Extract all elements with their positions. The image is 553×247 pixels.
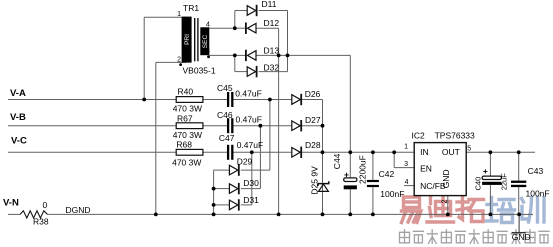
svg-text:D13: D13 [264, 46, 280, 56]
svg-text:3: 3 [206, 48, 210, 55]
svg-text:TPS76333: TPS76333 [435, 131, 475, 141]
svg-text:R40: R40 [178, 87, 194, 97]
svg-text:+: + [483, 166, 488, 176]
svg-text:DGND: DGND [66, 205, 91, 215]
wire IC2 GND pin 2 [447, 196, 449, 215]
svg-text:0.47uF: 0.47uF [236, 115, 262, 125]
wire V-A after R40 [203, 99, 227, 101]
svg-text:100nF: 100nF [380, 189, 404, 199]
transformer TR1 phase dot secondary [207, 55, 210, 58]
wire EN tie horizontal [394, 167, 414, 169]
wire C43 branch lower [518, 187, 520, 214]
node zener vertical on main rail [321, 150, 325, 154]
wire C42 branch lower [372, 187, 374, 214]
svg-text:D28: D28 [305, 140, 321, 150]
diode D26 [292, 94, 301, 105]
svg-text:2: 2 [177, 57, 181, 64]
svg-text:OUT: OUT [442, 147, 460, 157]
wire zener branch [322, 100, 324, 215]
svg-text:V-N: V-N [3, 198, 19, 209]
svg-text:R67: R67 [177, 113, 193, 123]
svg-text:D25 9V: D25 9V [310, 166, 320, 195]
wire vertical D31 to V-C [251, 152, 253, 205]
svg-text:1: 1 [177, 11, 181, 18]
wire D31 cathode [241, 204, 252, 206]
wire D12 anode to vertical [256, 27, 278, 29]
wire vertical D12 anode down to DGND [278, 28, 280, 214]
svg-text:EN: EN [420, 163, 432, 173]
wire OUT rail [466, 151, 535, 153]
wire V-C after C47 to D28 [233, 151, 291, 153]
svg-text:1: 1 [404, 144, 408, 151]
wire D29 cathode [241, 169, 270, 171]
wire V-A rail [8, 99, 176, 101]
diode D28 [292, 147, 301, 158]
diode D29 [229, 164, 238, 175]
node anode bus on DGND rail [212, 213, 216, 217]
svg-text:0.47uF: 0.47uF [237, 140, 263, 150]
svg-text:D27: D27 [305, 115, 321, 125]
svg-text:D32: D32 [264, 63, 280, 73]
wire vertical D30 to V-B [259, 126, 261, 189]
diode D13 [246, 50, 256, 61]
svg-text:470 3W: 470 3W [172, 157, 201, 167]
svg-text:22uF: 22uF [500, 173, 509, 191]
svg-text:GND: GND [441, 169, 451, 188]
wire vertical rectifier out down to rail [349, 55, 351, 152]
node D29 tap on V-A [268, 98, 272, 102]
zener diode D25 [318, 181, 329, 191]
wire TR1 pin4 to diode bus [209, 27, 235, 29]
op-amp regulator IC2 TPS76333 box [414, 143, 466, 196]
diode D32 [247, 66, 256, 77]
svg-text:TR1: TR1 [183, 3, 199, 13]
svg-text:C40: C40 [474, 177, 483, 191]
wire TR1 pin1 horizontal [144, 16, 186, 18]
wire TR1 pin2 horizontal [156, 61, 186, 63]
svg-text:0: 0 [43, 200, 48, 210]
node TR1 pin2 / DGND junction [154, 213, 158, 217]
svg-text:C46: C46 [217, 110, 233, 120]
svg-text:PRI: PRI [184, 34, 191, 45]
capacitor C42 [367, 180, 379, 187]
diode D12 [246, 23, 256, 34]
resistor R38 [20, 211, 48, 218]
wire D13 row [235, 54, 246, 56]
capacitor C43 [511, 181, 526, 188]
resistor R67 [176, 123, 203, 129]
node C43 branch on OUT rail [517, 150, 521, 154]
svg-text:D11: D11 [262, 0, 277, 9]
wire C40 branch upper [489, 152, 491, 176]
wire C43 branch upper [518, 152, 520, 180]
svg-text:4: 4 [405, 179, 409, 186]
node TR1 pin1 / V-A junction [142, 98, 146, 102]
wire main positive rail D28 to IC2 IN [301, 151, 414, 153]
node D31 on anode bus [212, 203, 216, 207]
transformer TR1 phase dot primary [179, 63, 182, 66]
svg-text:R68: R68 [176, 139, 192, 149]
capacitor C47 [228, 145, 232, 160]
diode D11 [247, 5, 256, 16]
svg-text:5: 5 [467, 146, 471, 153]
svg-text:3: 3 [404, 161, 408, 168]
capacitor C46 [228, 118, 232, 133]
svg-text:D30: D30 [243, 178, 259, 188]
wire V-N left segment [8, 213, 20, 215]
svg-text:D31: D31 [243, 195, 259, 205]
svg-text:VB035-1: VB035-1 [183, 65, 216, 75]
wire D13 anode to rectifier rail [256, 54, 350, 56]
wire C40 branch lower [489, 185, 491, 215]
svg-text:D12: D12 [264, 18, 280, 28]
wire C44 branch upper [349, 152, 351, 178]
wire TR1 pin1 vertical [143, 17, 145, 99]
wire V-B after R67 [203, 125, 227, 127]
wire TR1 pin3 to diode bus [209, 54, 235, 56]
wire V-B rail [8, 125, 176, 127]
node D30 tap on V-B [259, 124, 263, 128]
node pin4 bus junction [233, 26, 237, 30]
node C40 branch on OUT rail [489, 150, 493, 154]
wire V-C after R68 [203, 151, 227, 153]
wire D11 row [235, 10, 247, 12]
node rectifier vertical on main rail [348, 150, 352, 154]
wire D12 row [235, 27, 246, 29]
diode D31 [229, 199, 238, 210]
node IC2 GND on DGND rail [446, 213, 450, 217]
node C44 on DGND rail [348, 213, 352, 217]
transformer TR1 core [195, 18, 198, 61]
svg-text:IN: IN [420, 147, 429, 157]
svg-text:SEC: SEC [202, 35, 209, 49]
resistor R40 [176, 97, 203, 103]
wire TR1 pin2 vertical [155, 62, 157, 214]
wire D32 row [235, 71, 247, 73]
svg-text:2: 2 [441, 200, 448, 204]
node D12 vertical on rectifier rail [277, 54, 281, 58]
svg-text:470 3W: 470 3W [173, 104, 202, 114]
diode D30 [229, 183, 238, 194]
wire NC/FB stub pin 4 [404, 185, 414, 187]
node C43/GND on DGND rail [517, 213, 521, 217]
node D11 vertical on rectifier rail [286, 54, 290, 58]
wire D29 row [214, 169, 230, 171]
svg-text:4: 4 [206, 21, 210, 28]
svg-text:C43: C43 [528, 166, 544, 176]
svg-text:D29: D29 [237, 157, 253, 167]
wire D31 row [214, 204, 230, 206]
wire bus D13-D32 [234, 55, 236, 71]
wire D26 cathode to vertical [301, 99, 322, 101]
wire EN tie vertical [393, 152, 395, 167]
wire vertical D11/D32 cathodes [287, 11, 289, 72]
wire V-C rail [8, 151, 176, 153]
wire vertical D29 to V-A [269, 100, 271, 171]
node pin3 bus junction [233, 54, 237, 58]
wire DGND bottom rail [48, 213, 534, 215]
wire D27 cathode to vertical [301, 125, 322, 127]
node D30 on anode bus [212, 187, 216, 191]
node C42 on DGND rail [371, 213, 375, 217]
wire D30 row [214, 188, 230, 190]
svg-text:R38: R38 [33, 216, 49, 226]
wire C42 branch upper [372, 152, 374, 180]
node C40 on DGND rail [489, 213, 493, 217]
diode D27 [292, 120, 301, 131]
node D12 vertical on DGND rail [277, 213, 281, 217]
svg-text:V-C: V-C [11, 135, 27, 146]
capacitor C44 polarized [344, 178, 357, 189]
node zener on DGND rail [321, 213, 325, 217]
node D27 junction on zener vertical [321, 124, 325, 128]
svg-text:2200uF: 2200uF [358, 155, 368, 184]
wire D11 cathode to vertical [259, 10, 288, 12]
wire D30 cathode [241, 188, 261, 190]
node EN tie on main rail [392, 150, 396, 154]
svg-text:D26: D26 [305, 89, 321, 99]
ground GND symbol [512, 214, 526, 232]
svg-text:C42: C42 [379, 169, 395, 179]
node D31 tap on V-C [250, 150, 254, 154]
wire bus D11-D12 [234, 11, 236, 29]
svg-text:C47: C47 [219, 133, 235, 143]
svg-text:+: + [344, 169, 349, 179]
resistor R68 [176, 149, 203, 155]
transformer TR1 secondary winding [200, 27, 209, 55]
svg-text:IC2: IC2 [412, 131, 426, 141]
svg-text:V-A: V-A [10, 88, 26, 99]
wire V-A after C45 to D26 [233, 99, 291, 101]
svg-text:GND: GND [512, 232, 531, 242]
capacitor C45 [228, 92, 232, 107]
svg-text:V-B: V-B [10, 112, 26, 123]
transformer TR1 primary winding [182, 17, 192, 63]
svg-text:100nF: 100nF [526, 188, 550, 198]
svg-text:C45: C45 [217, 83, 233, 93]
watermark logo text yidita peixun [400, 197, 550, 244]
svg-text:0.47uF: 0.47uF [235, 88, 261, 98]
wire D32 cathode to vertical [259, 71, 288, 73]
svg-text:C44: C44 [332, 153, 342, 169]
capacitor C40 polarized [482, 176, 501, 185]
wire V-B after C46 to D27 [233, 125, 291, 127]
wire D29 anode bus [213, 170, 215, 214]
wire C44 branch lower [349, 189, 351, 214]
node C42 branch on main rail [371, 150, 375, 154]
